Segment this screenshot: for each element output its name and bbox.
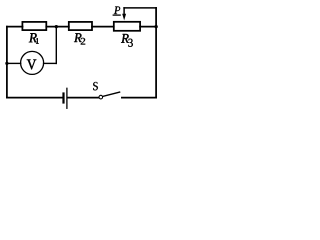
wire: voltmeter to riser [44,62,57,64]
label V (voltmeter) [27,60,36,70]
node: right edge junction [154,25,157,28]
wire: top-left to R1 [7,26,23,28]
battery B1 negative plate (short thick) [62,94,64,103]
wire: bottom left to battery [7,97,63,99]
label R1 [29,33,39,44]
wire: switch to bottom right [122,97,156,99]
wire: R2 to R3 [92,26,114,28]
label P underline [113,14,121,16]
switch S blade [103,92,120,96]
label P [114,7,120,14]
battery B1 positive plate (long thin) [66,88,68,108]
wire: R1 to R2 [46,26,69,28]
label R3 [121,34,133,47]
resistor R1 [22,22,46,30]
node: voltmeter tap on left edge [5,62,8,65]
wire: right edge vertical [155,8,157,98]
wire: left edge vertical [6,27,8,98]
switch S pivot [99,95,103,99]
rheostat slider arrow [122,8,126,21]
wire: left edge to voltmeter [7,62,21,64]
label S [93,82,98,90]
wire: slider to right edge [124,7,156,9]
resistor R2 [69,22,92,30]
wire: battery to switch [68,97,100,99]
wire: riser up to junction [55,27,57,64]
rheostat R3 body [114,22,140,31]
wire: R3 to right edge [140,26,156,28]
voltmeter V1 [21,51,44,74]
node: voltmeter branch junction [55,25,58,28]
label R2 [74,33,85,44]
